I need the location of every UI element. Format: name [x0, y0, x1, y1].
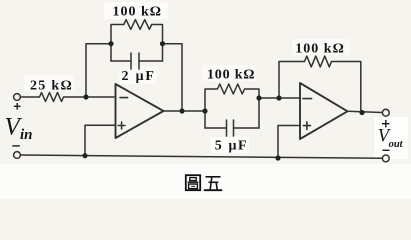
svg-text:100 kΩ: 100 kΩ	[207, 68, 255, 83]
svg-text:out: out	[389, 139, 404, 150]
svg-text:2 μF: 2 μF	[122, 69, 156, 84]
svg-text:25 kΩ: 25 kΩ	[30, 78, 73, 93]
svg-text:100 kΩ: 100 kΩ	[295, 41, 345, 56]
svg-text:100 kΩ: 100 kΩ	[113, 5, 163, 20]
svg-text:in: in	[20, 127, 33, 143]
svg-text:5 μF: 5 μF	[215, 138, 248, 153]
